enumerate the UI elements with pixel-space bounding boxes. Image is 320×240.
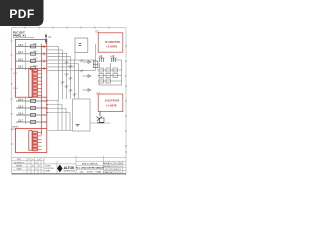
svg-text:PANEL K1: PANEL K1 xyxy=(13,33,27,37)
red bus bridge wire xyxy=(46,97,48,128)
svg-text:PLC ÇIKIŞ DEVRE ŞEMASI: PLC ÇIKIŞ DEVRE ŞEMASI xyxy=(76,166,104,169)
svg-text:17: 17 xyxy=(120,166,122,168)
output wire row Q0.6 xyxy=(16,112,47,116)
output wire row Q0.7 xyxy=(16,119,47,123)
note box 1 (red annotation) xyxy=(96,30,123,53)
red bus wire N1 xyxy=(42,44,47,135)
svg-text:ÖLÇ: ÖLÇ xyxy=(115,162,120,165)
output wire row Q0.1 xyxy=(16,51,47,55)
frame bottom heavy line xyxy=(12,173,126,175)
svg-text:Q0.4: Q0.4 xyxy=(18,98,24,101)
contact mesh xyxy=(61,59,84,96)
coil symbol K2 xyxy=(93,61,98,68)
svg-text:ONAY: ONAY xyxy=(95,170,102,173)
note box 2 (red annotation) xyxy=(97,92,123,112)
wire from junction box to limit switch xyxy=(90,122,110,124)
highlight box B (terminal group) xyxy=(15,128,46,152)
svg-text:ONAY: ONAY xyxy=(16,168,22,171)
svg-text:d: d xyxy=(32,165,33,167)
PDF badge xyxy=(0,0,44,26)
connector comb J1 xyxy=(99,55,105,62)
svg-text:X1:5: X1:5 xyxy=(13,88,18,90)
PLC module rail upper xyxy=(25,43,27,71)
PLC module rail lower xyxy=(25,97,27,124)
svg-text:+2 6978: +2 6978 xyxy=(106,45,117,49)
output wire row Q0.0 xyxy=(16,44,47,48)
output wire row Q0.3 xyxy=(16,66,47,70)
terminal strip X2 (ladder) xyxy=(29,131,42,151)
connector comb J2 xyxy=(111,55,117,62)
output wire row Q0.4 xyxy=(16,98,47,102)
off-sheet arrow 2 xyxy=(83,75,92,78)
red junction dots xyxy=(46,100,48,114)
svg-text:ALTOK: ALTOK xyxy=(64,166,75,170)
svg-text:X1:1: X1:1 xyxy=(13,73,18,75)
svg-text:Q0.1: Q0.1 xyxy=(18,51,24,54)
svg-text:KONT: KONT xyxy=(87,171,94,173)
sheet info cells text xyxy=(103,162,122,174)
svg-text:ANA KUMANDA: ANA KUMANDA xyxy=(82,162,98,165)
output wire row Q0.5 xyxy=(16,105,47,109)
svg-text:Q0.6: Q0.6 xyxy=(18,112,24,115)
relay coil K1 box xyxy=(75,38,88,53)
svg-text:Q0.2: Q0.2 xyxy=(18,58,24,61)
PLC output module label xyxy=(13,31,34,38)
drawn/checked cell text xyxy=(45,164,54,172)
svg-text:Q0.3: Q0.3 xyxy=(18,66,24,69)
svg-text:DEĞİŞİKLİK: DEĞİŞİKLİK xyxy=(13,161,25,164)
revision table text xyxy=(13,159,40,170)
svg-text:2021: 2021 xyxy=(109,166,113,168)
svg-text:PDF: PDF xyxy=(9,7,34,21)
junction box U2 xyxy=(73,99,91,131)
left margin note 3 xyxy=(12,126,20,132)
vertical bus wires xyxy=(59,44,96,101)
svg-text:SAYFA: SAYFA xyxy=(103,162,110,165)
contact lattice group xyxy=(98,60,122,85)
svg-text:c: c xyxy=(39,159,40,161)
output wire row Q0.2 xyxy=(16,58,47,62)
svg-text:2: 2 xyxy=(120,169,121,171)
svg-text:MÜHENDİSLİK: MÜHENDİSLİK xyxy=(64,170,76,173)
off-sheet arrow 1 xyxy=(83,61,92,64)
svg-text:TARİH: TARİH xyxy=(16,164,22,167)
highlight box A (terminal group) xyxy=(15,39,46,97)
nested corner wires to junction box xyxy=(48,101,73,131)
title block xyxy=(12,156,126,174)
svg-text:X2:1: X2:1 xyxy=(12,129,17,131)
limit switch S3 xyxy=(97,112,105,123)
off-sheet arrow 3 xyxy=(83,89,92,92)
company logo diamond xyxy=(57,165,63,173)
wire fan with contact cascade xyxy=(48,47,96,71)
svg-text:ONAY: ONAY xyxy=(45,169,51,172)
fuse F1 xyxy=(45,34,47,45)
svg-text:N 0357678: N 0357678 xyxy=(105,40,120,44)
title cell text xyxy=(76,162,104,173)
svg-text:05: 05 xyxy=(110,163,112,165)
svg-text:+1 9978: +1 9978 xyxy=(106,103,117,107)
svg-text:A3: A3 xyxy=(120,162,122,165)
svg-text:REV: REV xyxy=(17,159,22,161)
contact inside junction box xyxy=(76,124,80,126)
svg-text:9-0374678: 9-0374678 xyxy=(105,99,120,103)
svg-text:Q0.7: Q0.7 xyxy=(18,119,24,122)
svg-text:Q0.5: Q0.5 xyxy=(18,105,24,108)
svg-text:Q0.0: Q0.0 xyxy=(18,44,24,47)
terminal strip X1 (ladder) xyxy=(29,69,42,98)
sheet frame xyxy=(11,27,127,174)
